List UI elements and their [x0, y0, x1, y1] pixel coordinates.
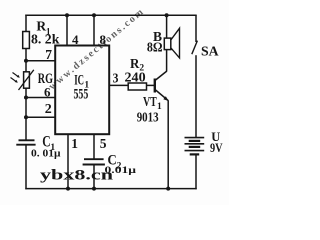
wire pin6 stub — [26, 97, 55, 99]
wire bottom rail — [25, 188, 196, 190]
transistor VT1 base bar — [154, 79, 156, 93]
svg-text:8. 2k: 8. 2k — [31, 31, 60, 46]
svg-text:7: 7 — [45, 47, 52, 62]
wire pin7 stub — [26, 60, 55, 62]
wire C1 to bottom rail — [25, 145, 27, 190]
wire pin1 drop to bottom — [67, 134, 69, 188]
photoresistor RG light arrow 1 — [13, 73, 20, 78]
wire C2 to bottom — [93, 165, 95, 189]
op-amp U1 body: IC1 555 rectangle — [55, 46, 109, 135]
svg-text:2: 2 — [45, 102, 52, 117]
wire switch to battery — [195, 55, 197, 137]
node bottom C2 — [92, 187, 96, 191]
wire top rail — [25, 14, 196, 16]
wire speaker to collector junction — [166, 50, 168, 72]
svg-text:1: 1 — [71, 136, 78, 151]
node top speaker — [165, 13, 169, 17]
wire pin5 drop to C2 — [93, 134, 95, 159]
svg-text:ybx8.cn: ybx8.cn — [40, 168, 114, 184]
resistor R2 body — [128, 83, 146, 90]
node left pin7 — [24, 59, 28, 63]
svg-text:0.01μ: 0.01μ — [105, 166, 137, 176]
wire pin3 to R2 — [109, 84, 128, 86]
node dots — [24, 13, 170, 190]
wire emitter drop to bottom — [167, 100, 169, 188]
wire battery to bottom — [195, 154, 197, 189]
node top pin4 — [65, 13, 69, 17]
svg-text:8Ω: 8Ω — [147, 39, 163, 54]
wire R1 to RG — [25, 48, 27, 72]
wire pin4 drop — [66, 15, 68, 45]
wire pin8 drop — [93, 15, 95, 45]
capacitor C2 plates — [84, 158, 104, 160]
svg-text:SA: SA — [201, 44, 219, 59]
wire RG to C1 — [25, 88, 27, 141]
speaker B horn — [171, 28, 180, 58]
wire pin2 stub — [26, 116, 55, 118]
svg-text:VT: VT — [143, 95, 157, 110]
photoresistor RG light arrow 2 — [11, 78, 18, 83]
node top pin8 — [92, 13, 96, 17]
speaker B body rect — [164, 38, 171, 50]
node left pin6 — [24, 96, 28, 100]
svg-text:6: 6 — [44, 85, 51, 100]
transistor VT1 emitter with arrow — [156, 90, 169, 101]
svg-text:555: 555 — [74, 86, 89, 102]
svg-text:0. 01μ: 0. 01μ — [31, 148, 61, 160]
wire R2 to base — [147, 84, 155, 86]
svg-text:8: 8 — [100, 32, 107, 47]
battery U plates — [185, 138, 205, 155]
wire speaker branch top — [166, 15, 168, 38]
photoresistor RG body — [24, 72, 30, 88]
resistor R1 body — [23, 32, 30, 49]
photoresistor RG strike line — [19, 70, 34, 90]
svg-text:240: 240 — [125, 71, 146, 86]
transistor VT1 collector — [156, 71, 167, 80]
svg-text:9013: 9013 — [137, 111, 159, 126]
wire left rail corner to R1 — [25, 15, 27, 33]
wire switch top — [195, 15, 197, 42]
svg-text:9V: 9V — [210, 141, 223, 155]
node left pin2 — [24, 115, 28, 119]
capacitor C1 plates — [19, 139, 35, 141]
switch SA lever — [192, 41, 198, 55]
svg-text:5: 5 — [100, 136, 107, 151]
node bottom pin1 — [66, 187, 70, 191]
svg-text:3: 3 — [113, 72, 119, 87]
node bottom emitter — [166, 187, 170, 191]
svg-text:4: 4 — [72, 32, 79, 47]
